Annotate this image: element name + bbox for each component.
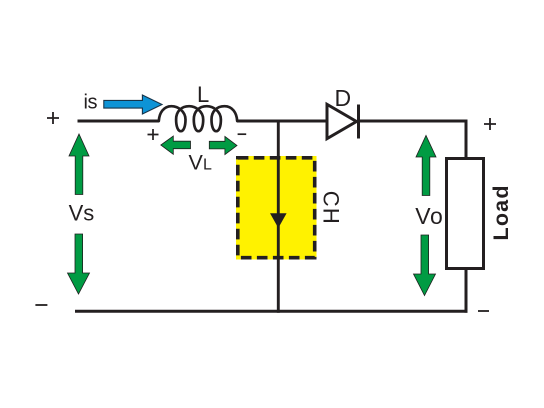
svg-text:D: D <box>335 85 352 111</box>
switch current arrowhead <box>270 213 287 228</box>
plus output top-right <box>484 118 496 130</box>
wire bottom <box>75 310 468 313</box>
minus output bottom-right <box>478 310 489 312</box>
inductor L <box>159 106 237 131</box>
wire switch vertical <box>277 120 280 313</box>
load resistor box <box>447 159 484 269</box>
arrow Vo up (green) <box>416 136 436 196</box>
minus inductor right <box>238 133 247 135</box>
diode D triangle <box>327 104 357 138</box>
svg-text:Load: Load <box>489 184 513 240</box>
svg-text:Vs: Vs <box>69 200 95 225</box>
svg-text:is: is <box>84 91 98 113</box>
arrow Vs down (green) <box>68 234 90 294</box>
svg-text:L: L <box>197 82 209 107</box>
wire diode to top-right corner <box>359 120 468 123</box>
arrow Vo down (green) <box>414 235 436 296</box>
minus source bottom-left <box>35 304 47 306</box>
svg-text:V: V <box>189 151 204 175</box>
wire top-left segment <box>78 120 160 123</box>
svg-text:L: L <box>203 157 212 174</box>
arrow VL left (green) <box>161 136 191 154</box>
svg-text:Vo: Vo <box>415 203 443 229</box>
wire right vertical lower <box>465 268 468 313</box>
wire inductor to diode <box>237 120 327 123</box>
wire right vertical upper <box>465 120 468 160</box>
plus inductor left <box>148 129 159 140</box>
arrow Vs up (green) <box>69 134 89 195</box>
diode D cathode bar <box>357 105 360 139</box>
plus source top-left <box>47 112 59 124</box>
current arrow is (blue) <box>104 95 162 114</box>
chopper switch box CH (yellow dashed) <box>236 156 317 260</box>
arrow VL right (green) <box>209 136 237 154</box>
chopper box dashed border <box>238 158 315 258</box>
svg-text:CH: CH <box>318 191 343 225</box>
